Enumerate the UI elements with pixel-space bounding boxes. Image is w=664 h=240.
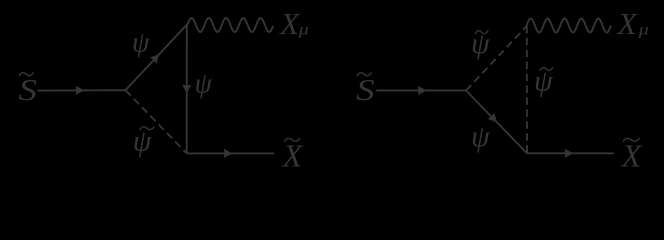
svg-text:X: X xyxy=(278,6,300,41)
psi fermion line (vertical) xyxy=(186,25,188,154)
incoming scalar S line (right) xyxy=(376,90,466,92)
psi-tilde dashed line (upper diagonal, right) xyxy=(466,26,527,91)
psi-tilde scalar dashed line xyxy=(126,90,187,153)
arrow on upper psi line xyxy=(150,54,159,64)
X_mu boson wavy line xyxy=(187,18,273,32)
svg-text:μ: μ xyxy=(298,22,309,39)
incoming scalar S line xyxy=(38,89,126,91)
svg-text:X: X xyxy=(616,6,638,41)
arrow on S line xyxy=(76,86,85,95)
psi-tilde dashed line (vertical, right) xyxy=(526,26,528,153)
svg-text:X: X xyxy=(620,137,643,173)
svg-text:ψ: ψ xyxy=(195,69,213,100)
psi fermion line (upper diagonal) xyxy=(126,25,187,91)
outgoing X-tilde line (right) xyxy=(527,152,614,154)
svg-text:X: X xyxy=(281,137,304,173)
svg-text:ψ: ψ xyxy=(132,28,150,59)
psi fermion line (lower diagonal, right) xyxy=(466,91,527,154)
X_mu boson wavy line (right) xyxy=(526,19,611,33)
arrow on vertical psi line xyxy=(182,85,191,94)
arrow on lower psi line (right) xyxy=(488,113,498,123)
arrow on outgoing X-tilde line xyxy=(224,149,233,158)
svg-text:ψ: ψ xyxy=(471,120,491,153)
svg-text:S: S xyxy=(356,72,374,107)
outgoing X-tilde line (left) xyxy=(187,152,274,154)
svg-text:μ: μ xyxy=(638,22,649,39)
arrow on S line (right) xyxy=(418,86,427,95)
svg-text:S: S xyxy=(19,72,37,107)
arrow on outgoing X-tilde line (right) xyxy=(565,149,574,158)
